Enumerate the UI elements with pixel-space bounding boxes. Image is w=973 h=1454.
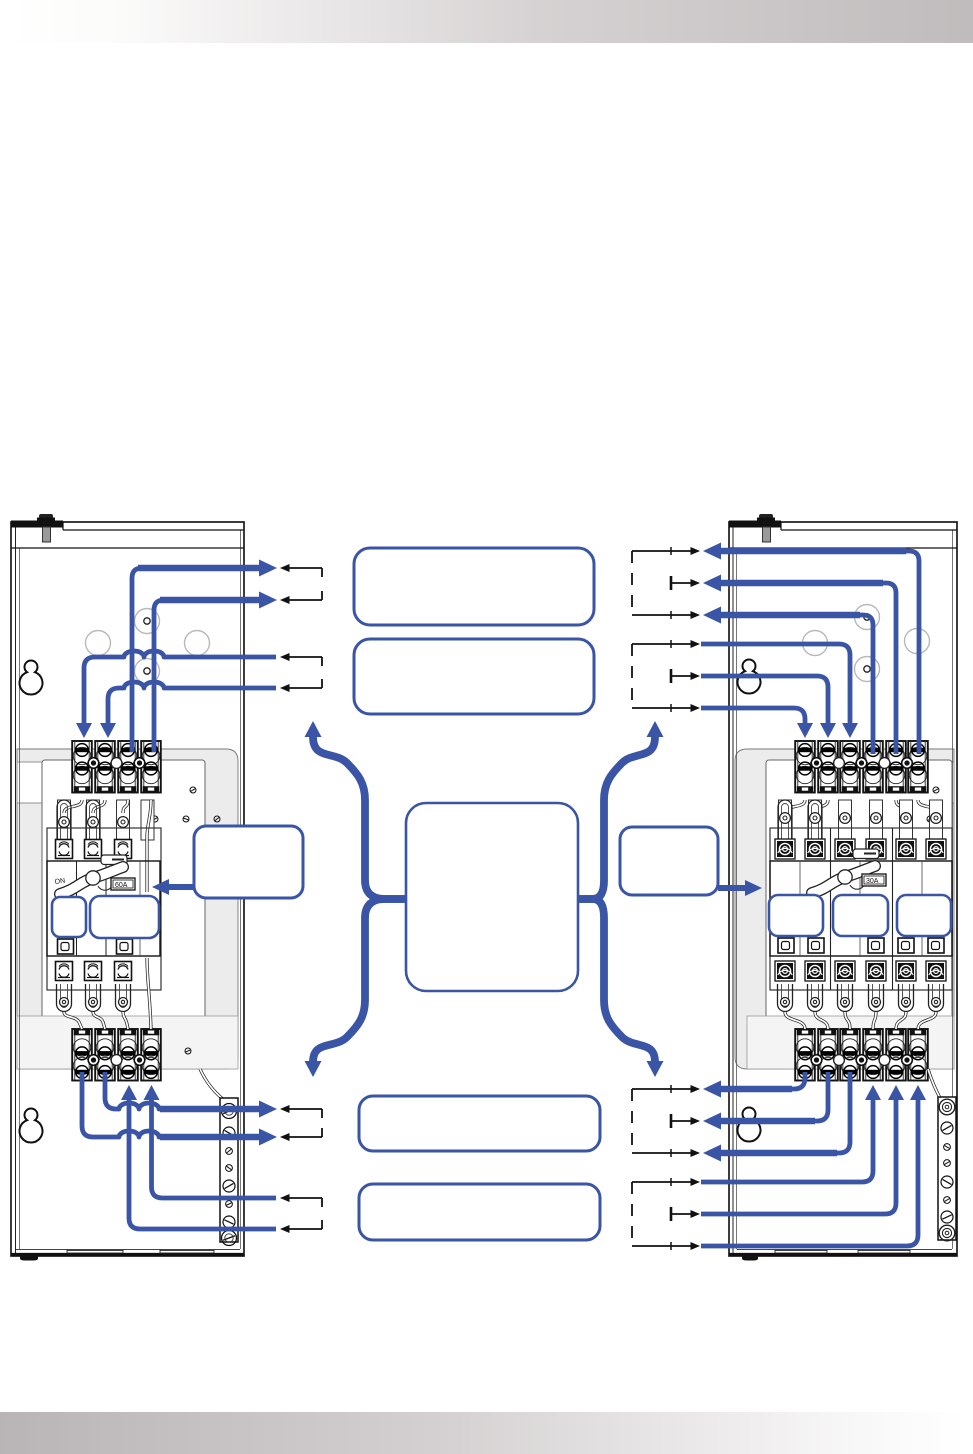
svg-text:ON: ON [54,878,65,886]
svg-text:60A: 60A [115,882,128,889]
svg-text:30A: 30A [866,878,879,885]
